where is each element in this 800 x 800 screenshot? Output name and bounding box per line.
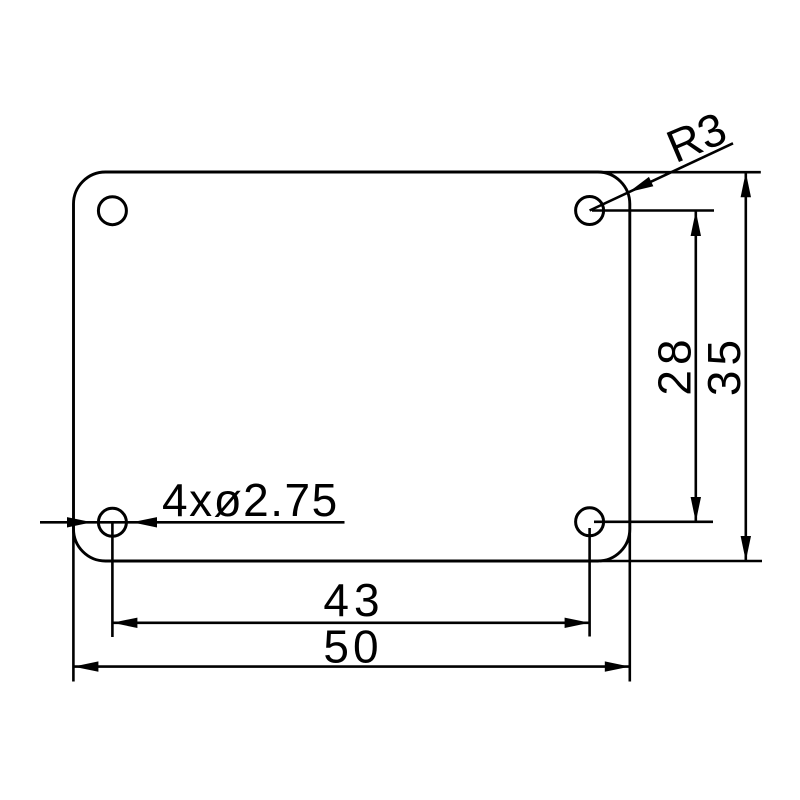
leader line for hole diameter	[40, 521, 345, 524]
dimension line 50	[73, 665, 629, 668]
dimension line 43	[112, 621, 589, 624]
arrow diameter right (pointing left at hole)	[132, 517, 157, 527]
arrow 43 right	[565, 618, 590, 628]
svg-text:43: 43	[323, 574, 384, 626]
right edge extension line	[628, 500, 631, 682]
arrow R3	[626, 177, 653, 197]
hole bottom-left	[98, 508, 126, 536]
arrow 35 up	[741, 172, 751, 197]
extension line below bottom-right hole	[588, 528, 591, 637]
arrow 43 left	[112, 618, 137, 628]
leader line R3	[590, 143, 733, 210]
svg-text:4xø2.75: 4xø2.75	[162, 474, 339, 526]
arrow 28 down	[691, 497, 701, 522]
hole bottom-right	[576, 508, 604, 536]
extension line from bottom-right hole	[594, 520, 713, 523]
top edge extension line	[600, 171, 761, 174]
hole top-left	[98, 197, 126, 225]
arrow 28 up	[691, 211, 701, 236]
arrow 50 left	[73, 661, 98, 671]
hole top-right	[576, 197, 604, 225]
extension line below bottom-left hole	[111, 523, 114, 637]
dimension line 28	[694, 211, 697, 522]
bottom edge extension line	[600, 560, 762, 563]
arrow diameter left (pointing right at hole)	[67, 517, 92, 527]
dimension line 35	[744, 172, 747, 561]
left edge extension line	[72, 520, 75, 682]
arrow 50 right	[605, 661, 630, 671]
plate outline	[74, 172, 630, 561]
arrow 35 down	[741, 536, 751, 561]
svg-text:28: 28	[649, 334, 701, 395]
svg-text:50: 50	[323, 621, 382, 673]
extension line from top-right hole	[592, 209, 714, 212]
svg-text:35: 35	[698, 335, 750, 396]
